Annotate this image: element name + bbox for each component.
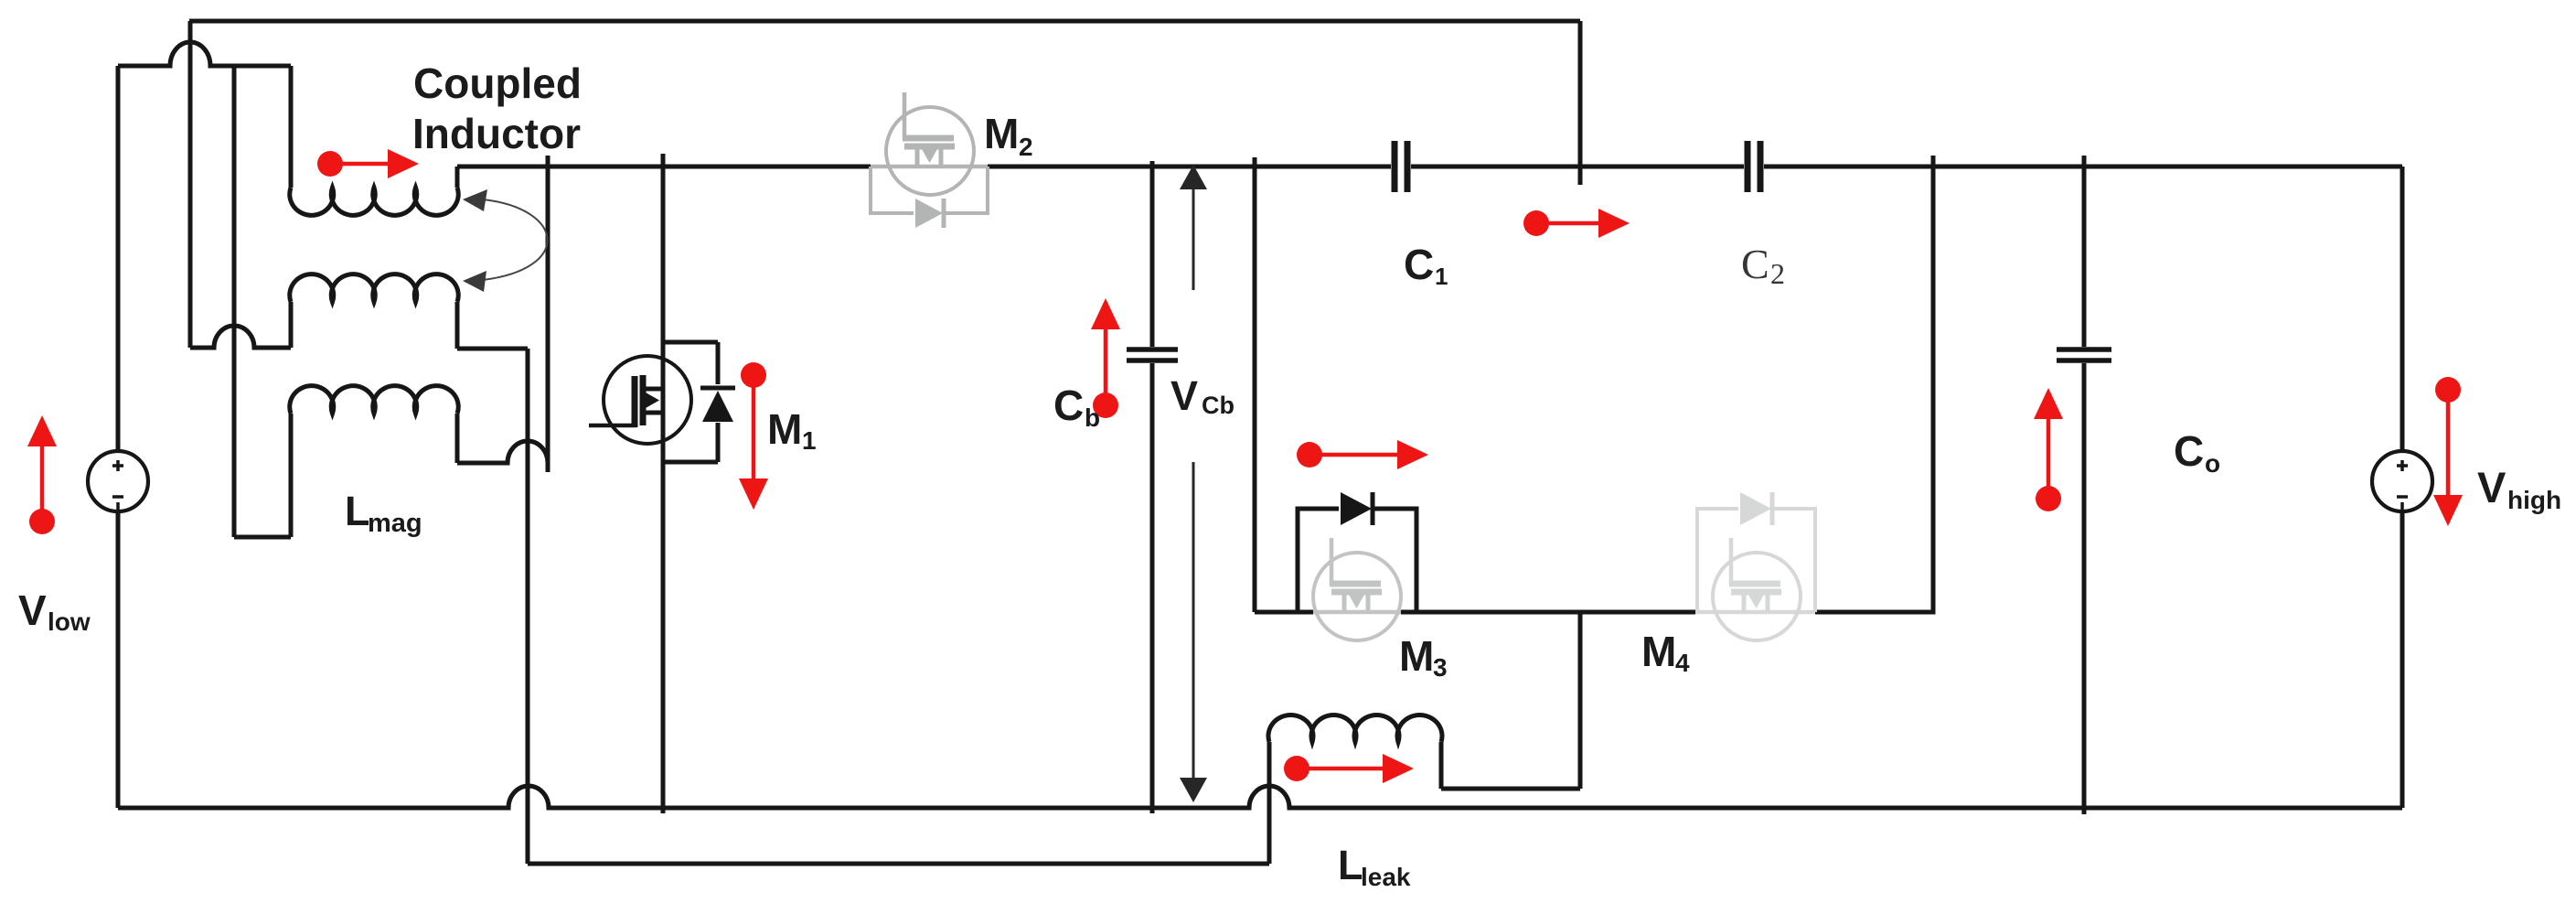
wire M3M4 rail black segment right and riser x2114: [1815, 156, 1933, 612]
svg-text:Cb: Cb: [1202, 392, 1235, 419]
wire vertical x599 from main rail: [546, 156, 550, 472]
svg-text:low: low: [48, 608, 91, 636]
wire Cb bottom lead: [1150, 363, 1155, 813]
wire Co bottom lead: [2082, 363, 2087, 814]
wire M3M4 rail black segment left: [1255, 610, 1313, 615]
wire winding1 right riser to main rail: [455, 167, 460, 188]
capacitor Co plates: [2057, 349, 2111, 360]
transistor M1 (black MOSFET): [589, 356, 691, 444]
wire winding2 left horizontal with hop over x256: [190, 326, 291, 348]
inductor winding3 Lmag: [290, 386, 459, 414]
capacitor Cb plates: [1127, 349, 1178, 360]
wire winding2 left riser: [289, 302, 294, 348]
arrow M1 current: [741, 362, 766, 388]
wire winding2 right riser: [455, 302, 460, 349]
wire Lleak right horizontal: [1441, 787, 1580, 791]
wire Lleak left riser: [1267, 742, 1272, 864]
diode D4 body of M4 light gray box: [1697, 492, 1815, 612]
arrow Co current: [2036, 486, 2061, 511]
diode D3 triangle: [1341, 492, 1372, 525]
svg-text:high: high: [2507, 486, 2561, 514]
diode D1 body of M1 box: [663, 342, 718, 462]
coupling arrow between winding1 and winding2: [463, 189, 548, 292]
svg-text:M: M: [767, 405, 802, 453]
wire Co top lead: [2082, 156, 2087, 347]
current arrows red: [27, 149, 2463, 783]
svg-text:1: 1: [802, 426, 817, 455]
wire main rail segment A: [457, 165, 871, 169]
voltage source Vhigh circle: [2372, 451, 2432, 511]
svg-text:1: 1: [1435, 263, 1448, 290]
wire main rail segment C: [1411, 165, 1744, 169]
svg-text:C: C: [1053, 382, 1084, 429]
wire winding3 bottom horizontal: [234, 535, 291, 540]
transistor M4 (light gray MOSFET): [1713, 538, 1801, 640]
wire Vlow branch upper: [116, 66, 121, 451]
arrow M3 current: [1297, 442, 1322, 468]
svg-text:M: M: [1641, 628, 1676, 675]
svg-text:M: M: [984, 110, 1019, 157]
wire second horizontal with hop over x208: [118, 42, 291, 66]
wire top rail: [189, 19, 1580, 24]
wire vertical x1728 from M3M4 node down to Lleak: [1578, 612, 1583, 789]
wire bottom link horizontal to Lleak: [528, 862, 1269, 866]
svg-text:V: V: [2477, 463, 2507, 511]
svg-text:C: C: [1741, 241, 1769, 287]
arrow Cb current: [1093, 392, 1118, 418]
wire M3 branch vertical x1372: [1253, 157, 1257, 612]
transistor M3 (gray MOSFET with black body diode): [1313, 538, 1401, 640]
wire winding3 left vertical x256: [232, 66, 237, 537]
wire Vhigh bottom lead: [2400, 511, 2405, 808]
wire light gray rail through M4: [1695, 610, 1815, 615]
wire M1 drain-source vertical: [661, 154, 666, 813]
arrow C1 to C2 current: [1523, 210, 1549, 236]
svg-text:M: M: [1399, 632, 1434, 680]
wire vertical from top rail to C1C2 node: [1578, 21, 1583, 185]
svg-text:2: 2: [1019, 133, 1033, 161]
wire Cb top lead: [1150, 161, 1155, 347]
capacitor C1 plates: [1395, 141, 1407, 192]
wire gray rail through M2: [871, 165, 988, 169]
svg-text:V: V: [1170, 372, 1198, 419]
wire main rail segment B: [988, 165, 1391, 169]
wire winding3 left riser: [289, 414, 294, 537]
diode D1 cathode bar: [700, 386, 735, 391]
inductor Lleak: [1268, 715, 1442, 742]
wire winding2 right horizontal: [457, 347, 528, 351]
svg-text:4: 4: [1675, 649, 1690, 677]
voltage source Vlow circle: [88, 451, 148, 511]
svg-text:Inductor: Inductor: [412, 110, 581, 157]
svg-text:C: C: [2174, 427, 2204, 475]
svg-text:b: b: [1085, 403, 1100, 432]
wire Vhigh top lead: [2400, 167, 2405, 451]
svg-text:leak: leak: [1361, 863, 1411, 891]
diode D3 cathode bar: [1371, 492, 1375, 525]
wire vertical from top rail to winding2 left horizontal: [188, 21, 193, 348]
capacitor C2 plates: [1748, 141, 1760, 192]
wire winding3 right riser: [455, 414, 460, 463]
svg-text:L: L: [1338, 842, 1363, 888]
arrow winding1 current: [317, 151, 343, 177]
svg-text:Coupled: Coupled: [413, 59, 582, 107]
svg-text:V: V: [18, 586, 47, 634]
wire gray rail through M3: [1313, 610, 1401, 615]
arrow Vhigh current: [2435, 377, 2461, 403]
svg-text:3: 3: [1433, 653, 1448, 682]
diode D2 body of M2 gray box: [871, 167, 988, 228]
inductor winding2 (secondary winding): [290, 274, 459, 302]
svg-text:2: 2: [1770, 257, 1785, 290]
diode D1 triangle: [702, 391, 733, 422]
inductor winding1 (top winding of coupled inductor): [290, 188, 459, 215]
svg-text:mag: mag: [368, 509, 422, 538]
wire M3M4 rail black segment middle: [1401, 610, 1695, 615]
arrow Vlow current: [29, 509, 55, 534]
svg-text:L: L: [345, 488, 370, 534]
wire Vlow branch lower: [116, 511, 121, 808]
wire Lleak right riser: [1439, 742, 1444, 789]
wire winding1 left riser: [289, 66, 294, 188]
diode D3 box of M3: [1298, 509, 1416, 612]
wire bottom rail with hops at x578 and x1388: [118, 786, 2402, 808]
wire winding3 right horizontal with hop over x577: [457, 441, 548, 463]
transistor M2 (gray MOSFET): [886, 92, 974, 195]
svg-text:o: o: [2205, 449, 2220, 478]
svg-text:C: C: [1404, 241, 1434, 288]
wire main rail segment D: [1764, 165, 2402, 169]
arrow Lleak current: [1284, 756, 1309, 781]
wire long vertical x577 down to bottom link: [526, 349, 530, 864]
arrow VCb measurement double arrow: [1180, 165, 1207, 802]
